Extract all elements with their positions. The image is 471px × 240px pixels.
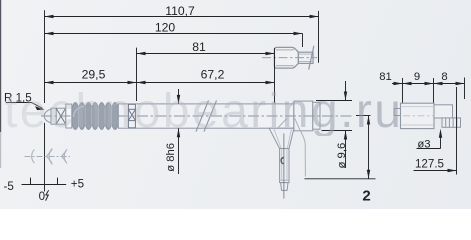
ø8h6 dim	[178, 89, 180, 174]
side connector rear	[434, 105, 453, 118]
symbol crescent 2	[49, 148, 52, 164]
center line (probe axis)	[41, 115, 72, 117]
svg-text:ø3: ø3	[417, 138, 430, 150]
svg-text:-5: -5	[4, 180, 14, 193]
svg-text:8: 8	[441, 71, 447, 83]
zero squiggle	[46, 190, 49, 200]
R 1,5 leader	[6, 102, 32, 104]
ext line funnel	[274, 48, 276, 103]
side connector cable entry	[394, 109, 401, 116]
bushing tip	[281, 183, 288, 191]
tube break symbol	[196, 101, 217, 132]
collar before bellows	[66, 104, 72, 128]
symbol crescent 3	[64, 149, 67, 163]
funnel center line	[283, 134, 285, 199]
svg-text:ø 9,6: ø 9,6	[336, 143, 348, 169]
svg-text:0: 0	[39, 190, 45, 203]
bellows highlight	[74, 107, 85, 118]
arrows top dims	[45, 15, 319, 84]
bellows	[72, 103, 118, 130]
left image border	[0, 0, 2, 132]
ext line crimp	[136, 48, 138, 101]
ext line connector nose (110,7)	[318, 11, 320, 63]
dim line 120	[45, 33, 303, 35]
connector cap break slant	[309, 46, 314, 70]
ext line at tip	[44, 10, 46, 103]
watermark	[4, 88, 403, 136]
ø9,6 dim line	[345, 81, 347, 101]
probe tip bullet	[44, 110, 52, 123]
connector cap center line	[262, 57, 317, 59]
connector cap nose	[298, 52, 313, 63]
svg-text:127.5: 127.5	[415, 157, 444, 170]
127.5 dim line	[414, 170, 457, 172]
top right dims 81 9 8	[392, 78, 465, 104]
end cap	[313, 102, 320, 129]
127.5 ext line	[456, 87, 458, 175]
tip cylinder	[51, 108, 66, 124]
dim 2 (axis to ref plane)	[305, 116, 376, 179]
cable bushing	[280, 149, 289, 183]
bottom scale symbols line	[25, 156, 71, 158]
svg-text:9: 9	[414, 71, 420, 83]
inner cone lines	[278, 118, 287, 127]
bushing crimp detail	[281, 158, 284, 164]
tube crimp box	[128, 104, 135, 128]
svg-text:81: 81	[192, 40, 206, 54]
rear housing (ø9.6)	[294, 101, 313, 131]
cable funnel	[269, 128, 294, 148]
svg-text:110,7: 110,7	[165, 4, 195, 18]
bottom scale	[22, 178, 67, 185]
svg-text:2: 2	[362, 187, 370, 204]
dim line 29,5 / 67,2	[45, 82, 275, 84]
svg-text:29,5: 29,5	[82, 68, 106, 82]
symbol crescent 1	[32, 150, 35, 164]
svg-text:120: 120	[155, 21, 176, 35]
svg-text:ø 8h6: ø 8h6	[165, 143, 177, 172]
ext line connector top (120)	[302, 34, 304, 48]
ø3 leader	[417, 132, 441, 149]
side connector body	[401, 103, 435, 128]
connector cap top view body	[274, 47, 298, 68]
tip crimp X	[55, 108, 57, 124]
ø9,6 ext lines	[316, 81, 352, 168]
dim line 81 main	[137, 53, 275, 55]
svg-text:+5: +5	[71, 177, 84, 190]
svg-text:67,2: 67,2	[201, 68, 225, 82]
svg-text:81: 81	[379, 71, 392, 83]
main tube	[118, 104, 293, 128]
side connector ribbed boot	[442, 118, 461, 127]
dim line 110,7	[45, 16, 319, 18]
